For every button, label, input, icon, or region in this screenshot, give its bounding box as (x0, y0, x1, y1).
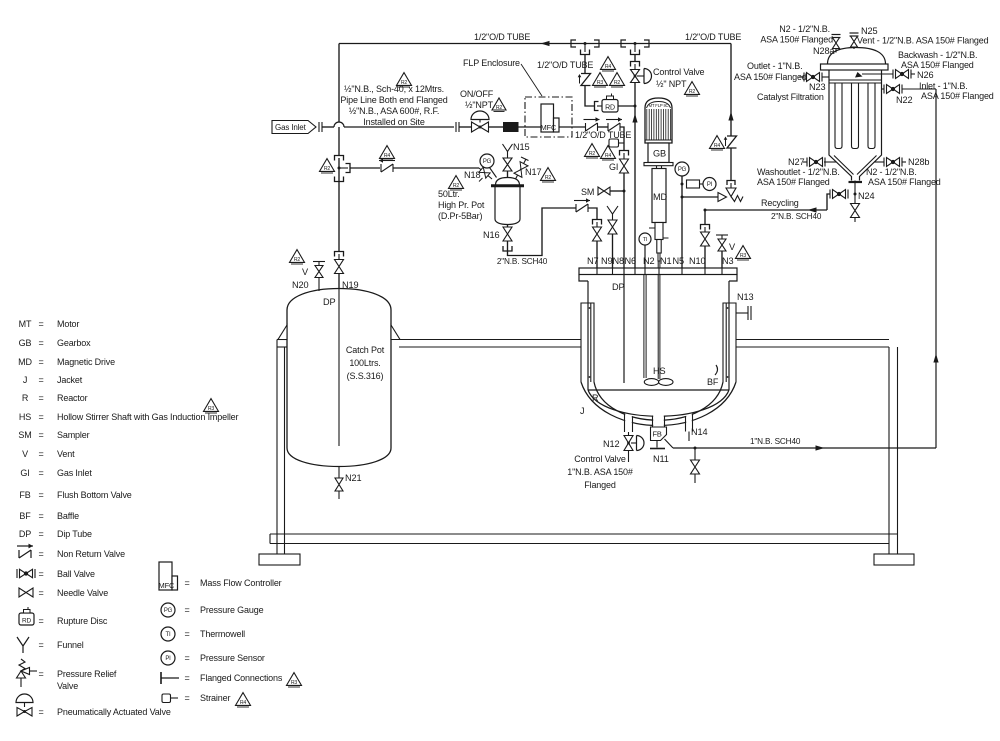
flow arrow up riser (933, 354, 938, 363)
nozzle N24 branch (830, 190, 848, 199)
svg-text:Vent: Vent (57, 449, 75, 459)
svg-text:Catalyst Filtration: Catalyst Filtration (757, 92, 824, 102)
svg-text:N18: N18 (464, 170, 480, 180)
nozzle N28b (874, 161, 885, 163)
triangle R2 manifold (610, 73, 625, 87)
svg-text:MD: MD (653, 192, 668, 202)
catch pot dip tube (338, 289, 340, 447)
wire left riser below hop (338, 127, 340, 156)
flange pair on header at node B (621, 40, 626, 47)
needle valve GI (620, 159, 629, 173)
svg-text:N6: N6 (625, 256, 636, 266)
legend needle valve symbol (19, 588, 33, 597)
svg-text:1/2"O/D TUBE: 1/2"O/D TUBE (537, 60, 593, 70)
wire node A down to PRV (584, 55, 586, 74)
svg-text:ASA 150# Flanged: ASA 150# Flanged (901, 60, 974, 70)
legend non return valve symbol (17, 544, 33, 558)
svg-text:MT: MT (19, 319, 32, 329)
svg-text:FB: FB (19, 490, 30, 500)
svg-text:N28b: N28b (908, 157, 929, 167)
legend strainer symbol (162, 694, 178, 703)
triangle R2 at on/off valve (492, 98, 506, 112)
needle valve N15 (503, 158, 512, 171)
vent bar N3 (716, 234, 728, 236)
flange above angle relief valve (727, 181, 735, 186)
wire to control valve N12 (628, 432, 630, 436)
wire header right elbow down (730, 44, 732, 137)
svg-text:FLP Enclosure: FLP Enclosure (463, 58, 520, 68)
svg-text:=: = (184, 693, 189, 703)
svg-text:R2: R2 (545, 175, 552, 181)
svg-text:=: = (38, 319, 43, 329)
nozzle N23 outlet (822, 76, 830, 78)
legend pressure relief valve symbol (17, 659, 38, 687)
svg-text:1"N.B. SCH40: 1"N.B. SCH40 (750, 437, 801, 446)
svg-text:½" NPT: ½" NPT (656, 79, 687, 89)
wire pot outlet loop to reactor feed (508, 208, 577, 256)
svg-text:N19: N19 (342, 280, 358, 290)
svg-text:Vent - 1/2"N.B. ASA 150# Flang: Vent - 1/2"N.B. ASA 150# Flanged (857, 36, 989, 46)
stand right foot (874, 554, 914, 565)
svg-text:(D.Pr-5Bar): (D.Pr-5Bar) (438, 211, 483, 221)
triangle R2 near control valve (685, 82, 700, 96)
svg-text:R4: R4 (384, 153, 391, 159)
svg-text:N23: N23 (809, 82, 825, 92)
legend MFC symbol (159, 562, 178, 590)
svg-text:1/2"O/D TUBE: 1/2"O/D TUBE (575, 130, 631, 140)
flanged connection below N16 (503, 246, 512, 251)
rupture disc RD (597, 94, 618, 113)
reactor dished bottom (588, 390, 729, 416)
svg-text:Control Valve: Control Valve (574, 454, 626, 464)
pot vent funnel N15 (503, 144, 513, 152)
svg-text:SM: SM (18, 430, 31, 440)
wire PG down to reactor lid N5 (681, 176, 683, 268)
svg-text:100Ltrs.: 100Ltrs. (349, 358, 380, 368)
svg-text:Baffle: Baffle (57, 511, 79, 521)
wire tee to flange (634, 55, 636, 62)
wire block to MFC (519, 126, 542, 128)
junction dot RD line (634, 105, 637, 108)
flanged connection on GI line (620, 151, 629, 156)
wire N20 to dome (318, 278, 320, 292)
legend TI symbol (161, 627, 175, 641)
needle valve N20 (315, 266, 323, 278)
stand left foot (259, 554, 300, 565)
svg-text:RD: RD (22, 618, 32, 625)
svg-text:Flanged Connections: Flanged Connections (200, 673, 283, 683)
needle valve under filter (854, 194, 856, 204)
catalyst filter bottom stub (854, 181, 856, 195)
MD shaft housing (657, 240, 661, 254)
svg-text:N24: N24 (858, 191, 874, 201)
stand left leg (276, 340, 278, 555)
pressure gauge PG on reactor N5 (675, 162, 689, 176)
svg-text:Pneumatically Actuated Valve: Pneumatically Actuated Valve (57, 707, 171, 717)
wire rupture disc to N6 line (618, 105, 635, 107)
svg-text:Flanged: Flanged (584, 480, 616, 490)
needle valve N17 diagonal with handle (515, 159, 526, 180)
catch pot support bracket right (391, 325, 400, 340)
wire check valve elbow to N7 (588, 208, 597, 220)
svg-text:=: = (38, 468, 43, 478)
svg-text:R4: R4 (714, 143, 721, 149)
recycling line to N10 (705, 210, 827, 225)
jacket right panel (723, 303, 736, 382)
reactor bottom tangent line (588, 389, 729, 391)
svg-text:R: R (592, 393, 599, 403)
svg-text:Installed on Site: Installed on Site (363, 117, 425, 127)
wire tee to check valve (350, 167, 380, 169)
svg-text:N7: N7 (587, 256, 598, 266)
svg-text:Ball Valve: Ball Valve (57, 569, 95, 579)
wire N15 valve to pot (507, 171, 509, 178)
needle valve N9 (612, 214, 614, 221)
wire N22 to riser (902, 88, 937, 90)
svg-text:Flush Bottom Valve: Flush Bottom Valve (57, 490, 132, 500)
junction dot PRV branch (681, 196, 684, 199)
control valve 1/2 NPT on N6 line (631, 70, 640, 83)
svg-text:N2: N2 (643, 256, 654, 266)
wire right riser to flange (730, 148, 732, 181)
legend pneumatically actuated valve symbol (16, 694, 33, 716)
wire N10 to lid (704, 246, 706, 268)
white gap FB nozzle (653, 412, 664, 433)
needle valve N7 (593, 227, 602, 241)
svg-text:Rupture Disc: Rupture Disc (57, 616, 108, 626)
svg-text:PG: PG (678, 167, 687, 173)
wire PG branch to angle relief valve (682, 196, 718, 198)
svg-text:R2: R2 (294, 257, 301, 263)
svg-text:Gas Inlet: Gas Inlet (275, 123, 307, 132)
wire SM valve to N8 line (610, 190, 624, 192)
wire PG to pot dome (490, 168, 497, 178)
svg-text:PI: PI (707, 182, 713, 188)
wire check valve elbow down to strainer (620, 127, 624, 139)
svg-text:DP: DP (612, 282, 624, 292)
stand shelf right segment (736, 339, 889, 341)
svg-text:½"N.B., ASA 600#, R.F.: ½"N.B., ASA 600#, R.F. (349, 106, 439, 116)
nozzle N27 washoutlet (824, 161, 836, 163)
wire MFC to check valves (559, 126, 585, 128)
wire below N21 (338, 491, 340, 499)
flanged tee side cup (339, 167, 348, 169)
svg-text:ASA 150# Flanged: ASA 150# Flanged (734, 72, 807, 82)
strainer on GI line (609, 139, 624, 147)
nozzle N25 valve stack (853, 47, 855, 49)
wire flange to on/off valve (459, 126, 472, 128)
svg-text:V: V (302, 267, 309, 277)
wire strainer to flange (623, 139, 625, 151)
stand shelf left segment (277, 339, 287, 341)
svg-text:N22: N22 (896, 95, 912, 105)
mass flow controller MFC (541, 104, 560, 132)
svg-text:PG: PG (164, 608, 173, 614)
svg-text:Motor: Motor (57, 319, 79, 329)
triangle R3 legend flanged (287, 673, 302, 687)
flange at rupture disc inlet (595, 102, 599, 111)
riser from transfer line to N22 (935, 89, 937, 448)
vessel wall double line in jacket left (590, 303, 592, 382)
svg-text:Reactor: Reactor (57, 393, 88, 403)
baffle BF arc (715, 365, 718, 375)
stand shelf middle segment (399, 339, 581, 341)
triangle R4 near strainer (601, 146, 616, 160)
svg-text:Magnetic Drive: Magnetic Drive (57, 357, 115, 367)
wire left riser to catch pot (338, 182, 340, 252)
svg-text:½"NPT: ½"NPT (465, 100, 494, 110)
nozzle lines crossing lid (596, 268, 598, 275)
svg-text:ASA 150# Flanged: ASA 150# Flanged (921, 91, 994, 101)
needle valve N21 (335, 478, 343, 491)
svg-text:GB: GB (653, 149, 666, 159)
svg-text:=: = (38, 669, 43, 679)
wire through tee (338, 158, 340, 182)
angle pressure relief valve with spring (718, 188, 743, 202)
wire N6 line control valve to reactor lid (634, 83, 636, 269)
flanged tee lower cup (335, 177, 344, 182)
thermowell line into reactor N2 (644, 245, 646, 275)
svg-text:V: V (22, 449, 28, 459)
svg-text:RD: RD (605, 105, 615, 112)
svg-text:=: = (38, 569, 43, 579)
legend rupture disc symbol (19, 607, 34, 625)
svg-text:PI: PI (165, 656, 171, 662)
wire between check valves (598, 126, 609, 128)
inline filter black block (503, 122, 519, 132)
wire check valve to pot inlet (393, 167, 479, 169)
reactor shell right wall (728, 281, 730, 390)
svg-text:Recycling: Recycling (761, 198, 799, 208)
wire FB outlet diagonal (665, 439, 674, 448)
triangle R2 at N20 (290, 250, 305, 264)
svg-text:Inlet - 1"N.B.: Inlet - 1"N.B. (919, 81, 968, 91)
svg-text:N25: N25 (861, 26, 877, 36)
svg-text:N5: N5 (673, 256, 684, 266)
legend funnel symbol (17, 637, 29, 653)
svg-text:Valve: Valve (57, 681, 78, 691)
svg-text:MD: MD (18, 357, 32, 367)
svg-text:Gas Inlet: Gas Inlet (57, 468, 92, 478)
non return valve pot to reactor (574, 198, 590, 212)
motor MT (645, 98, 672, 143)
svg-text:50Ltr.: 50Ltr. (438, 189, 460, 199)
junction dot node B (634, 42, 637, 45)
svg-text:MFC: MFC (159, 581, 176, 590)
svg-text:Sampler: Sampler (57, 430, 90, 440)
svg-text:SM: SM (581, 187, 594, 197)
vent N20 bar (313, 261, 325, 263)
svg-text:Strainer: Strainer (200, 693, 230, 703)
stand lower cross bar (270, 533, 898, 535)
jacket nozzle stub N14 (685, 416, 687, 432)
catch pot support bracket left (278, 325, 287, 340)
wire N19 valve to dome (338, 274, 340, 290)
sampler needle valve SM (598, 187, 610, 195)
thermowell TI (639, 233, 651, 245)
junction dot SM tee (623, 190, 626, 193)
flanged connection on N7 line (593, 220, 602, 225)
svg-text:Mass Flow Controller: Mass Flow Controller (200, 578, 282, 588)
svg-text:FB: FB (653, 430, 662, 439)
jacket nozzle stubs N12 (624, 414, 626, 432)
wire on/off valve to strainer block (489, 126, 504, 128)
triangle R2 right of N17 (541, 168, 556, 182)
svg-text:N20: N20 (292, 280, 308, 290)
svg-text:DP: DP (323, 297, 335, 307)
junction dot node A (584, 42, 587, 45)
svg-text:N11: N11 (653, 454, 669, 464)
svg-text:=: = (184, 605, 189, 615)
svg-text:1/2"O/D TUBE: 1/2"O/D TUBE (685, 32, 741, 42)
svg-text:Pipe Line Both end Flanged: Pipe Line Both end Flanged (340, 95, 447, 105)
svg-text:Needle Valve: Needle Valve (57, 588, 108, 598)
svg-text:ON/OFF: ON/OFF (460, 89, 494, 99)
svg-text:=: = (38, 549, 43, 559)
vessel wall double line in jacket right (725, 303, 727, 382)
svg-text:N26: N26 (917, 70, 933, 80)
svg-text:1"N.B. ASA 150#: 1"N.B. ASA 150# (567, 467, 633, 477)
wire N3 to lid (721, 251, 723, 268)
svg-text:HS: HS (653, 366, 665, 376)
crossing hop over catch pot riser (334, 122, 344, 127)
stirrer shaft into reactor N1 (657, 261, 659, 379)
funnel on N9 line (607, 206, 618, 214)
nozzle N28a valve stack (835, 49, 837, 53)
svg-text:=: = (38, 511, 43, 521)
svg-text:Jacket: Jacket (57, 375, 83, 385)
junction dot gas tee (338, 167, 341, 170)
pressure relief valve |Z on right riser (724, 136, 737, 148)
needle valve N3 vent (718, 239, 726, 251)
svg-text:BF: BF (19, 511, 31, 521)
nozzle N26 backwash (862, 73, 894, 75)
svg-text:Washoutlet - 1/2"N.B.: Washoutlet - 1/2"N.B. (757, 167, 840, 177)
svg-text:N12: N12 (603, 439, 619, 449)
svg-text:R2: R2 (614, 80, 621, 86)
wire PRV down and right to rupture disc (585, 86, 595, 107)
svg-text:V: V (729, 242, 736, 252)
svg-text:N1: N1 (660, 256, 671, 266)
svg-text:N13: N13 (737, 292, 753, 302)
flange ticks after gas inlet (318, 122, 320, 132)
triangle R4 above manifold (601, 57, 616, 71)
svg-text:J: J (580, 406, 584, 416)
svg-text:R3: R3 (740, 253, 747, 259)
wire below N12 (628, 451, 630, 463)
filter candle 2 (852, 83, 859, 149)
reactor shell left wall (587, 281, 589, 390)
svg-text:=: = (184, 629, 189, 639)
stand right leg (888, 347, 890, 554)
svg-text:R2: R2 (689, 89, 696, 95)
flanged connection below node B (631, 62, 640, 67)
svg-text:N9: N9 (601, 256, 612, 266)
svg-text:R2: R2 (324, 166, 331, 172)
white gap jacket nozzle N12 (625, 408, 632, 433)
svg-text:N28a: N28a (813, 46, 835, 56)
triangle R2 near strainer (585, 144, 600, 158)
needle valve N16 (503, 227, 512, 241)
non return valve to pot (379, 158, 395, 172)
triangle R2 left of pot (449, 176, 464, 190)
jacket dished bottom inner (594, 382, 723, 420)
gearbox GB (648, 143, 669, 163)
flow arrow up right riser (728, 112, 733, 121)
svg-text:Hollow Stirrer Shaft with Gas: Hollow Stirrer Shaft with Gas Induction … (57, 412, 239, 422)
legend flanged connection symbol (161, 672, 179, 684)
nozzle N11 flanged end (656, 441, 658, 448)
wire 1NB SCH40 to filter riser (673, 447, 936, 449)
svg-text:=: = (38, 338, 43, 348)
jacket left panel (581, 303, 594, 382)
needle valve N10 (701, 232, 710, 246)
junction dot recycling N10 (704, 209, 707, 212)
needle valve N18 diagonal (479, 168, 492, 179)
svg-text:(S.S.316): (S.S.316) (347, 371, 384, 381)
wire N7 valve to reactor lid (596, 241, 598, 268)
triangle R2 at left riser tee (320, 159, 335, 173)
svg-text:=: = (38, 707, 43, 717)
svg-text:N8: N8 (613, 256, 624, 266)
catalyst filter dome (828, 48, 886, 65)
wire N16 to flange (507, 241, 509, 251)
svg-text:BF: BF (707, 377, 719, 387)
triangle R2 above pipe note (397, 73, 412, 87)
flanged connection N19 (335, 252, 344, 257)
svg-text:N3: N3 (722, 256, 733, 266)
svg-text:Outlet - 1"N.B.: Outlet - 1"N.B. (747, 61, 802, 71)
svg-text:R4: R4 (605, 64, 612, 70)
svg-text:R4: R4 (240, 700, 247, 706)
svg-text:Control Valve: Control Valve (653, 67, 705, 77)
triangle R4 at right riser PRV (710, 136, 725, 150)
junction dot drain tee (694, 447, 697, 450)
svg-text:N15: N15 (513, 142, 529, 152)
svg-text:N14: N14 (691, 427, 707, 437)
junction dot PI tee (681, 183, 684, 186)
svg-text:MT FLP IIC: MT FLP IIC (649, 103, 669, 108)
non return valve 2 after MFC (606, 117, 622, 131)
pneumatically actuated on/off valve (471, 111, 489, 120)
svg-text:=: = (38, 430, 43, 440)
triangle R3 at N3 (736, 246, 751, 260)
flow arrow on transfer line (816, 445, 825, 450)
pressure gauge PG on pot (480, 154, 494, 168)
wire GI valve to reactor lid N8 dip tube (623, 173, 625, 268)
svg-text:½"N.B., Sch-40, x 12Mtrs.: ½"N.B., Sch-40, x 12Mtrs. (344, 84, 444, 94)
catalyst filter flange band (821, 64, 889, 70)
svg-text:N21: N21 (345, 473, 361, 483)
svg-text:ASA 150# Flanged: ASA 150# Flanged (760, 35, 833, 45)
svg-text:=: = (38, 375, 43, 385)
svg-text:Dip Tube: Dip Tube (57, 529, 92, 539)
svg-text:MFC: MFC (541, 123, 558, 132)
svg-text:N17: N17 (525, 167, 541, 177)
jacket dished bottom outer (581, 382, 736, 426)
wire N24 elbow to recycling (827, 194, 831, 210)
flange ticks before on/off valve (455, 122, 457, 132)
flanged tee stub node A (584, 44, 586, 53)
FLP enclosure dash-dot box (525, 97, 572, 137)
svg-text:R2: R2 (496, 105, 503, 111)
needle valve N19 (335, 260, 344, 274)
svg-text:R4: R4 (605, 153, 612, 159)
svg-text:HS: HS (19, 412, 31, 422)
svg-text:2"N.B. SCH40: 2"N.B. SCH40 (771, 212, 822, 221)
magnetic drive MD (652, 169, 666, 223)
svg-text:Backwash - 1/2"N.B.: Backwash - 1/2"N.B. (898, 50, 977, 60)
